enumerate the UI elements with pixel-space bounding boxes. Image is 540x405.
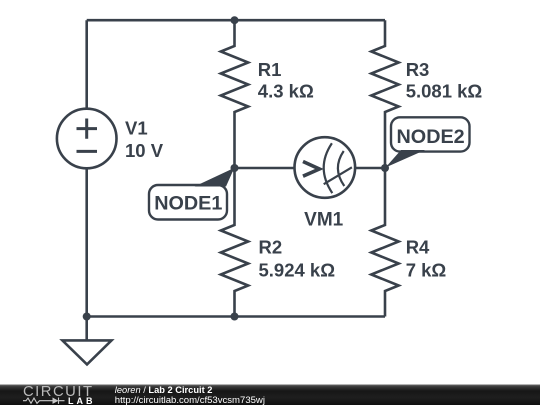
node junction NODE1 (231, 164, 239, 172)
resistor R2 (221, 168, 248, 317)
wire left rail bottom (85, 168, 88, 317)
label R3 (406, 59, 483, 102)
svg-text:NODE2: NODE2 (397, 126, 465, 148)
node junction NODE2 (381, 164, 389, 172)
svg-text:R2: R2 (259, 236, 283, 257)
wire middle rail VM1 left (235, 167, 296, 170)
wire top rail (87, 19, 385, 22)
logo circuitlab (23, 384, 96, 405)
voltmeter VM1 (295, 137, 356, 198)
svg-text:VM1: VM1 (304, 209, 344, 230)
svg-text:R4: R4 (406, 236, 430, 257)
svg-text:leoren / Lab 2 Circuit 2: leoren / Lab 2 Circuit 2 (115, 385, 213, 395)
svg-text:LAB: LAB (68, 396, 96, 405)
label R4 (406, 236, 447, 280)
svg-text:10 V: 10 V (125, 140, 164, 161)
node NODE2 flag (386, 117, 470, 167)
footer text (115, 385, 265, 405)
resistor R1 (221, 20, 248, 168)
label R1 (258, 59, 314, 102)
label V1 (125, 118, 164, 161)
label R2 (259, 236, 336, 280)
node NODE1 flag (149, 168, 234, 220)
svg-text:R3: R3 (406, 59, 430, 80)
svg-text:5.924 kΩ: 5.924 kΩ (259, 259, 336, 280)
ground (62, 317, 111, 365)
node junction top (231, 16, 239, 24)
wire left rail top (85, 20, 88, 109)
resistor R3 (371, 20, 398, 168)
svg-text:http://circuitlab.com/cf53vcsm: http://circuitlab.com/cf53vcsm735wj (115, 395, 265, 405)
svg-text:V1: V1 (125, 118, 148, 139)
wire bottom rail (87, 315, 385, 318)
svg-text:NODE1: NODE1 (154, 192, 222, 214)
svg-text:4.3 kΩ: 4.3 kΩ (258, 81, 314, 102)
svg-text:7 kΩ: 7 kΩ (406, 259, 447, 280)
node junction bottom (231, 313, 239, 321)
node junction ground (83, 313, 91, 321)
wire middle rail VM1 right (355, 167, 385, 170)
svg-text:R1: R1 (258, 59, 282, 80)
svg-text:5.081 kΩ: 5.081 kΩ (406, 81, 483, 102)
voltage source V1 (57, 109, 117, 169)
resistor R4 (371, 168, 398, 317)
